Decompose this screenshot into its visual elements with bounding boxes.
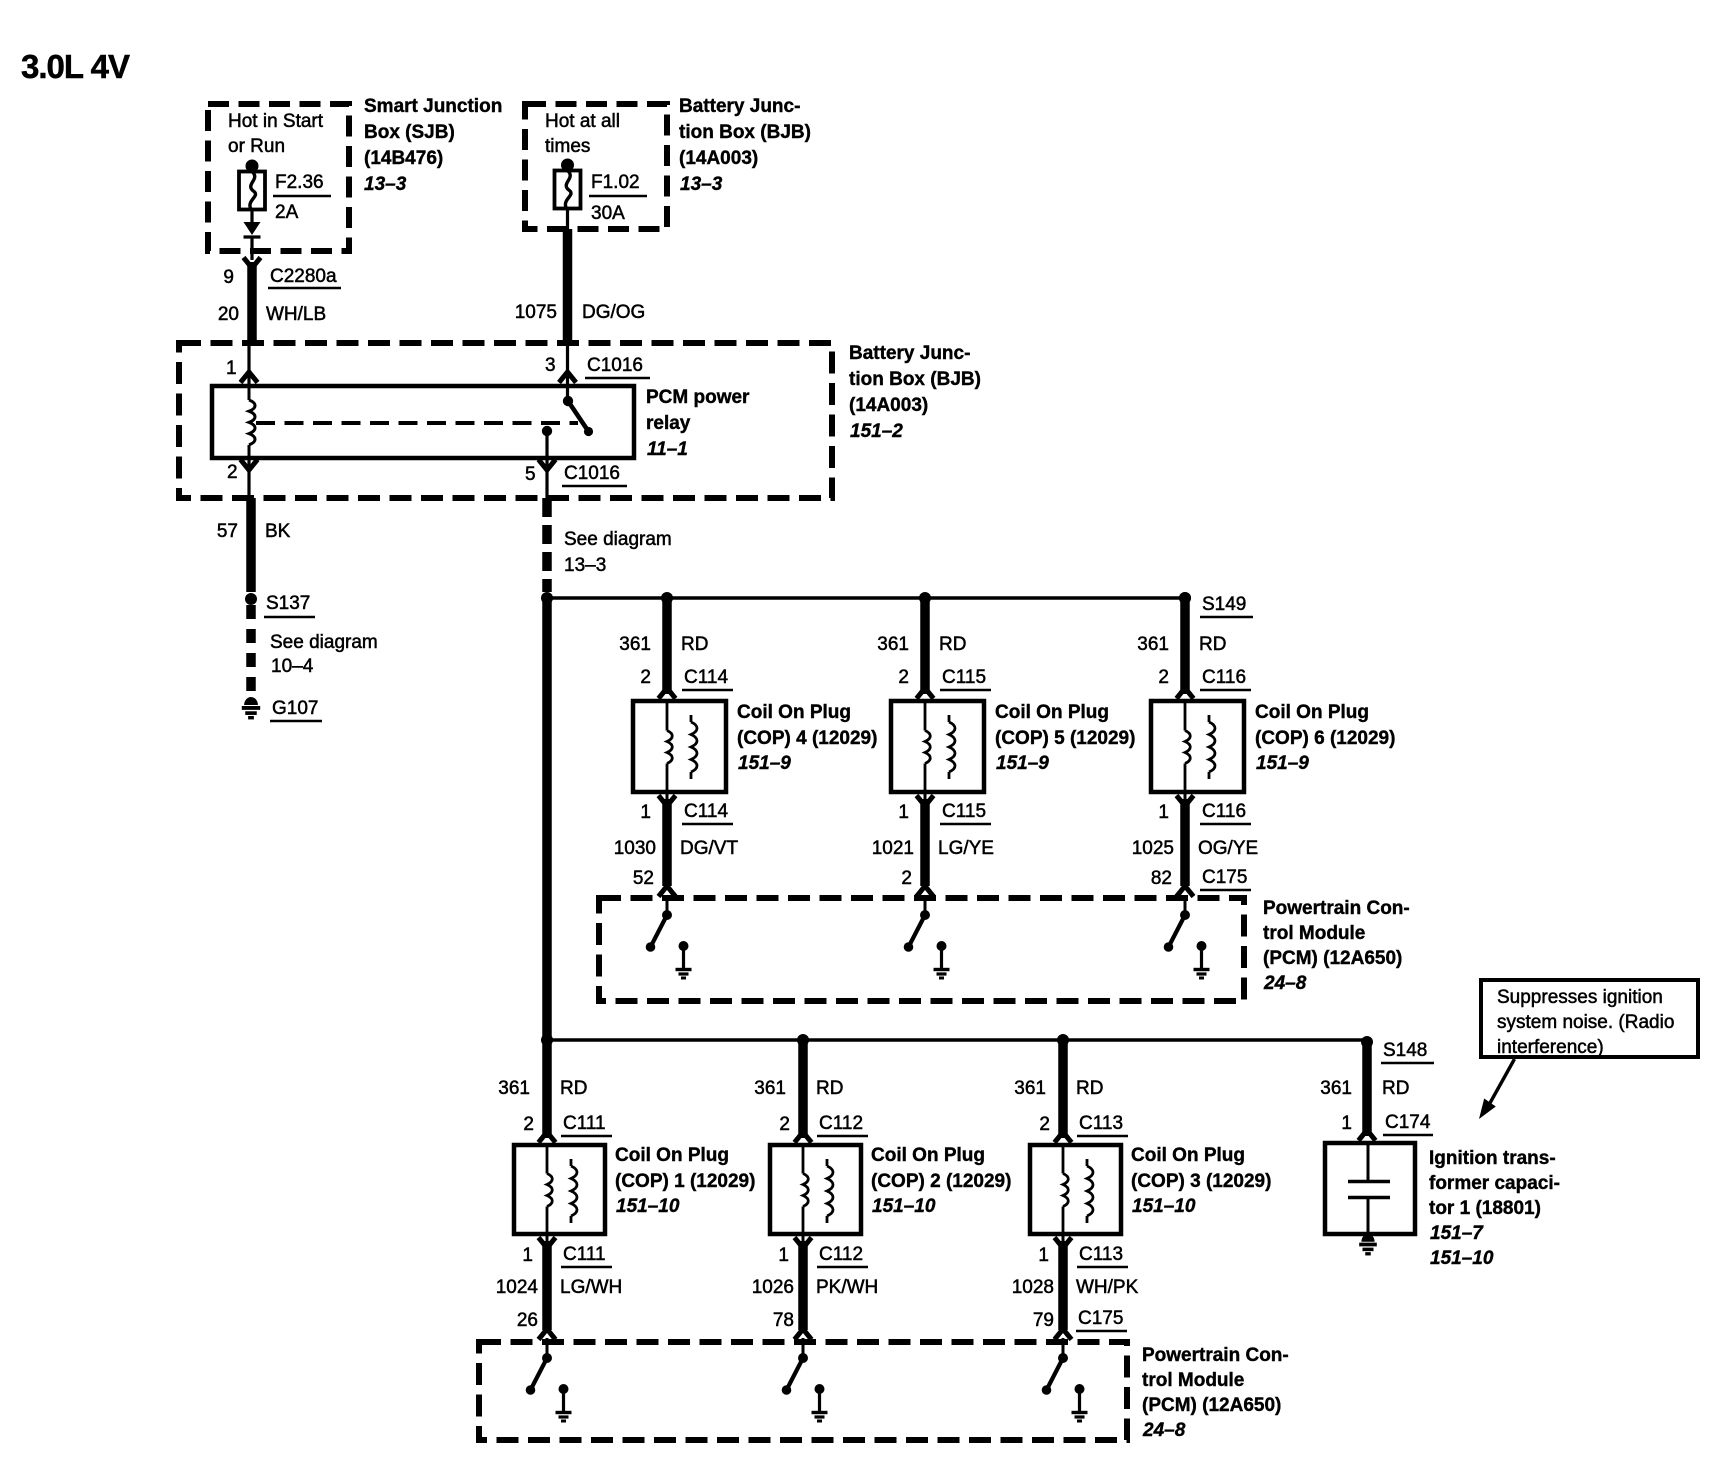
svg-text:C2280a: C2280a	[270, 266, 337, 287]
svg-text:(14A003): (14A003)	[849, 395, 928, 416]
wire fuse to diode	[250, 210, 253, 223]
svg-text:times: times	[545, 136, 590, 157]
wire 1026 PK/WH (thick)	[802, 1234, 805, 1242]
svg-text:F2.36: F2.36	[275, 172, 324, 193]
svg-text:WH/PK: WH/PK	[1076, 1277, 1139, 1298]
svg-text:Hot at all: Hot at all	[545, 111, 620, 132]
svg-text:1: 1	[1158, 802, 1169, 823]
svg-text:361: 361	[1320, 1078, 1352, 1099]
wire S137 to G107 (dashed thick)	[246, 605, 256, 698]
relay coil	[248, 386, 251, 400]
relay switch	[563, 396, 573, 406]
svg-text:151–9: 151–9	[738, 753, 791, 774]
PCM internal ground (COP6)	[1197, 941, 1207, 951]
pin 1 arrow COP4	[659, 796, 676, 807]
svg-text:Battery Junc-: Battery Junc-	[849, 343, 970, 364]
svg-text:(COP) 5 (12029): (COP) 5 (12029)	[995, 728, 1135, 749]
svg-text:1: 1	[778, 1245, 789, 1266]
svg-text:RD: RD	[939, 634, 966, 655]
svg-text:1075: 1075	[515, 302, 557, 323]
svg-text:C112: C112	[819, 1244, 863, 1265]
wire See diagram 13-3 (dashed thick)	[542, 498, 552, 592]
wire 1028 WH/PK (thick)	[1062, 1234, 1065, 1242]
svg-text:30A: 30A	[591, 203, 625, 224]
svg-text:2: 2	[901, 868, 912, 889]
ground below capacitor	[1361, 1234, 1374, 1242]
svg-text:52: 52	[633, 868, 654, 889]
svg-text:DG/OG: DG/OG	[582, 302, 645, 323]
svg-text:Coil On Plug: Coil On Plug	[871, 1145, 985, 1166]
svg-text:1: 1	[226, 358, 237, 379]
pin 1 arrow COP2	[795, 1238, 812, 1249]
splice at bus1	[541, 592, 553, 604]
svg-text:C112: C112	[819, 1113, 863, 1134]
wire diode to SJB edge	[250, 238, 253, 260]
svg-text:1: 1	[1038, 1245, 1049, 1266]
pin 2 arrow COP1	[539, 1132, 556, 1143]
wire 361 RD to COP1 (thick)	[542, 1040, 552, 1138]
PCM internal ground (COP3)	[1075, 1384, 1085, 1394]
svg-text:(COP) 6 (12029): (COP) 6 (12029)	[1255, 728, 1395, 749]
svg-text:11–1: 11–1	[647, 439, 688, 460]
svg-text:Coil On Plug: Coil On Plug	[1131, 1145, 1245, 1166]
pin 2 arrow COP3	[1055, 1132, 1072, 1143]
svg-text:10–4: 10–4	[271, 656, 314, 677]
svg-text:361: 361	[1137, 634, 1169, 655]
junction dot COP2 branch	[797, 1034, 809, 1046]
svg-text:C175: C175	[1078, 1308, 1123, 1329]
splice at bus2	[541, 1034, 553, 1046]
coil COP1 windings	[546, 1145, 549, 1174]
note arrow	[1490, 1059, 1515, 1103]
wire 57 BK (thick)	[246, 498, 256, 592]
pin 1 arrow	[241, 372, 258, 383]
coil COP2 windings	[802, 1145, 805, 1174]
svg-text:G107: G107	[272, 698, 318, 719]
svg-text:tor 1 (18801): tor 1 (18801)	[1429, 1198, 1541, 1219]
wire pin1 entry	[247, 346, 250, 386]
svg-text:tion Box (BJB): tion Box (BJB)	[849, 369, 981, 390]
wire pin5 exit	[545, 431, 548, 498]
fuse F2.36	[246, 160, 259, 173]
ground G107	[244, 697, 258, 705]
junction box BJB (dashed)	[525, 104, 667, 229]
svg-text:RD: RD	[681, 634, 708, 655]
svg-text:1026: 1026	[752, 1277, 794, 1298]
PCM entry arrow COP3	[1055, 1329, 1072, 1340]
svg-text:2: 2	[640, 667, 651, 688]
svg-text:(PCM) (12A650): (PCM) (12A650)	[1142, 1395, 1281, 1416]
svg-text:Coil On Plug: Coil On Plug	[995, 702, 1109, 723]
wire into PCM (COP2)	[802, 1338, 805, 1358]
junction dot COP5 branch	[919, 592, 931, 604]
wire 361 RD to COP6 (thick)	[1180, 598, 1190, 694]
svg-text:1: 1	[640, 802, 651, 823]
svg-text:WH/LB: WH/LB	[266, 304, 326, 325]
wire 361 RD to COP2 (thick)	[798, 1040, 808, 1138]
svg-text:151–10: 151–10	[1430, 1248, 1494, 1269]
svg-text:or Run: or Run	[228, 136, 285, 157]
svg-text:13–3: 13–3	[564, 555, 606, 576]
svg-text:82: 82	[1151, 868, 1172, 889]
splice S137	[245, 593, 257, 605]
svg-text:Coil On Plug: Coil On Plug	[1255, 702, 1369, 723]
relay K (PCM power relay) outline	[212, 386, 634, 458]
svg-text:361: 361	[619, 634, 651, 655]
module PCM upper (dashed)	[599, 898, 1244, 1001]
svg-text:151–10: 151–10	[1132, 1196, 1196, 1217]
wire into PCM (COP4)	[666, 895, 669, 915]
pin 1 arrow COP3	[1055, 1238, 1072, 1249]
bus wire to S149	[547, 596, 1185, 599]
PCM internal ground (COP2)	[815, 1384, 825, 1394]
pin 5 arrow	[539, 460, 556, 471]
pin 1 arrow COP5	[917, 796, 934, 807]
svg-text:1: 1	[898, 802, 909, 823]
svg-text:C1016: C1016	[587, 355, 643, 376]
wire 361 RD to COP3 (thick)	[1058, 1040, 1068, 1138]
svg-text:interference): interference)	[1497, 1037, 1604, 1058]
svg-text:C116: C116	[1202, 667, 1246, 688]
svg-text:(COP) 1 (12029): (COP) 1 (12029)	[615, 1171, 755, 1192]
coil-on-plug COP3 box	[1030, 1145, 1121, 1234]
svg-text:2: 2	[779, 1114, 790, 1135]
svg-text:1025: 1025	[1132, 838, 1174, 859]
svg-text:Ignition trans-: Ignition trans-	[1429, 1148, 1556, 1169]
PCM entry arrow COP4	[659, 886, 676, 897]
svg-text:79: 79	[1033, 1310, 1054, 1331]
coil COP3 windings	[1062, 1145, 1065, 1174]
svg-text:151–2: 151–2	[850, 421, 903, 442]
pin 1 arrow capacitor	[1359, 1130, 1376, 1141]
svg-text:13–3: 13–3	[680, 174, 723, 195]
wire 20 WH/LB (thick)	[247, 262, 257, 344]
svg-text:Smart Junction: Smart Junction	[364, 96, 502, 117]
wire main feed (thick vertical)	[542, 598, 552, 1040]
svg-text:151–10: 151–10	[872, 1196, 936, 1217]
svg-text:C113: C113	[1079, 1113, 1123, 1134]
svg-text:1021: 1021	[872, 838, 914, 859]
svg-text:(PCM) (12A650): (PCM) (12A650)	[1263, 948, 1402, 969]
svg-text:361: 361	[498, 1078, 530, 1099]
svg-text:(COP) 3 (12029): (COP) 3 (12029)	[1131, 1171, 1271, 1192]
PCM internal ground (COP5)	[937, 941, 947, 951]
svg-text:trol Module: trol Module	[1142, 1370, 1244, 1391]
svg-text:78: 78	[773, 1310, 794, 1331]
svg-text:(COP) 2 (12029): (COP) 2 (12029)	[871, 1171, 1011, 1192]
svg-text:1024: 1024	[496, 1277, 539, 1298]
wire pin2 exit	[247, 458, 250, 498]
relay pin5 contact dot	[542, 426, 552, 436]
svg-text:361: 361	[877, 634, 909, 655]
svg-text:Powertrain Con-: Powertrain Con-	[1142, 1345, 1289, 1366]
svg-text:RD: RD	[1382, 1078, 1409, 1099]
svg-text:relay: relay	[646, 413, 691, 434]
PCM switch (COP6 driver)	[1180, 910, 1190, 920]
svg-text:361: 361	[754, 1078, 786, 1099]
svg-text:Hot in Start: Hot in Start	[228, 111, 324, 132]
wire 361 RD to COP4 (thick)	[662, 598, 672, 694]
svg-text:DG/VT: DG/VT	[680, 838, 738, 859]
svg-text:RD: RD	[560, 1078, 587, 1099]
svg-text:See diagram: See diagram	[270, 632, 378, 653]
pin 2 arrow	[241, 460, 258, 471]
relay control dashed line	[256, 421, 578, 425]
svg-text:9: 9	[223, 267, 234, 288]
junction dot COP6 branch	[1179, 592, 1191, 604]
svg-text:(14B476): (14B476)	[364, 148, 443, 169]
capacitor C1 symbol	[1367, 1143, 1370, 1180]
svg-text:151–9: 151–9	[1256, 753, 1309, 774]
splice S148	[1361, 1036, 1373, 1048]
wire 1024 LG/WH (thick)	[546, 1234, 549, 1242]
junction box SJB (dashed)	[208, 104, 349, 251]
PCM internal ground (COP1)	[559, 1384, 569, 1394]
pin 2 arrow COP5	[917, 688, 934, 699]
svg-text:Coil On Plug: Coil On Plug	[615, 1145, 729, 1166]
svg-text:RD: RD	[1199, 634, 1226, 655]
svg-text:LG/WH: LG/WH	[560, 1277, 622, 1298]
wire 1021 LG/YE (thick)	[924, 792, 927, 800]
module PCM lower (dashed)	[479, 1342, 1127, 1440]
svg-text:BK: BK	[265, 521, 291, 542]
svg-text:1: 1	[1341, 1113, 1352, 1134]
svg-text:3.0L 4V: 3.0L 4V	[21, 48, 130, 85]
svg-text:S149: S149	[1202, 594, 1246, 615]
svg-text:2: 2	[523, 1114, 534, 1135]
PCM switch (COP1 driver)	[542, 1353, 552, 1363]
pin 2 arrow COP2	[795, 1132, 812, 1143]
coil COP6 windings	[1184, 701, 1187, 731]
svg-text:Box (SJB): Box (SJB)	[364, 122, 455, 143]
coil-on-plug COP6 box	[1151, 701, 1244, 792]
svg-text:C111: C111	[563, 1244, 606, 1265]
wire fuse to BJB edge	[566, 209, 569, 230]
svg-text:3: 3	[545, 355, 556, 376]
PCM entry arrow COP2	[795, 1329, 812, 1340]
PCM internal ground (COP4)	[679, 941, 689, 951]
coil COP5 windings	[924, 701, 927, 731]
svg-text:20: 20	[218, 304, 239, 325]
PCM entry arrow COP1	[539, 1329, 556, 1340]
note box (suppresses ignition noise)	[1481, 980, 1698, 1057]
svg-text:tion Box (BJB): tion Box (BJB)	[679, 122, 811, 143]
svg-text:151–9: 151–9	[996, 753, 1049, 774]
coil-on-plug COP2 box	[770, 1145, 861, 1234]
wire 361 RD to COP5 (thick)	[920, 598, 930, 694]
svg-text:RD: RD	[816, 1078, 843, 1099]
svg-text:C115: C115	[942, 801, 986, 822]
wire 1030 DG/VT (thick)	[666, 792, 669, 800]
svg-text:2: 2	[1158, 667, 1169, 688]
bus wire to S148	[547, 1038, 1367, 1041]
svg-text:Suppresses ignition: Suppresses ignition	[1497, 987, 1663, 1008]
fuse F1.02	[561, 159, 574, 172]
svg-text:Coil On Plug: Coil On Plug	[737, 702, 851, 723]
svg-text:(14A003): (14A003)	[679, 148, 758, 169]
coil-on-plug COP5 box	[891, 701, 984, 792]
svg-text:151–7: 151–7	[1430, 1223, 1484, 1244]
svg-text:57: 57	[217, 521, 238, 542]
svg-text:(COP) 4 (12029): (COP) 4 (12029)	[737, 728, 877, 749]
wire into PCM (COP3)	[1062, 1338, 1065, 1358]
wire into PCM (COP5)	[924, 895, 927, 915]
wire into PCM (COP1)	[546, 1338, 549, 1358]
pin 2 arrow COP6	[1177, 688, 1194, 699]
svg-text:Battery Junc-: Battery Junc-	[679, 96, 800, 117]
svg-text:2: 2	[227, 462, 238, 483]
svg-text:26: 26	[517, 1310, 538, 1331]
svg-text:1030: 1030	[614, 838, 656, 859]
svg-text:2: 2	[898, 667, 909, 688]
svg-text:LG/YE: LG/YE	[938, 838, 994, 859]
connector C2280a arrow	[244, 258, 261, 269]
svg-text:trol Module: trol Module	[1263, 923, 1365, 944]
svg-text:former capaci-: former capaci-	[1429, 1173, 1560, 1194]
svg-text:5: 5	[525, 464, 536, 485]
PCM entry arrow COP6	[1177, 886, 1194, 897]
svg-text:1028: 1028	[1012, 1277, 1054, 1298]
svg-text:24–8: 24–8	[1263, 973, 1307, 994]
svg-text:PCM power: PCM power	[646, 387, 750, 408]
wire pin3 entry	[566, 346, 569, 401]
svg-text:C113: C113	[1079, 1244, 1123, 1265]
svg-text:Powertrain Con-: Powertrain Con-	[1263, 898, 1410, 919]
wire 1025 OG/YE (thick)	[1184, 792, 1187, 800]
svg-text:C174: C174	[1385, 1112, 1431, 1133]
svg-text:S137: S137	[266, 593, 310, 614]
svg-text:C115: C115	[942, 667, 986, 688]
svg-text:2A: 2A	[275, 202, 299, 223]
svg-text:RD: RD	[1076, 1078, 1103, 1099]
junction box BJB lower (dashed)	[179, 343, 832, 498]
svg-text:C114: C114	[684, 667, 728, 688]
PCM switch (COP4 driver)	[662, 910, 672, 920]
svg-text:13–3: 13–3	[364, 174, 407, 195]
PCM switch (COP2 driver)	[798, 1353, 808, 1363]
svg-text:system noise. (Radio: system noise. (Radio	[1497, 1012, 1674, 1033]
coil-on-plug COP4 box	[633, 701, 726, 792]
PCM switch (COP5 driver)	[920, 910, 930, 920]
pin 1 arrow COP1	[539, 1238, 556, 1249]
pin 1 arrow COP6	[1177, 796, 1194, 807]
svg-text:24–8: 24–8	[1142, 1420, 1186, 1441]
diode (in SJB)	[244, 222, 261, 235]
pin 3 arrow	[559, 372, 576, 383]
coil-on-plug COP1 box	[514, 1145, 605, 1234]
wire into PCM (COP6)	[1184, 895, 1187, 915]
svg-text:151–10: 151–10	[616, 1196, 680, 1217]
PCM entry arrow COP5	[917, 886, 934, 897]
svg-text:C114: C114	[684, 801, 728, 822]
svg-text:See diagram: See diagram	[564, 529, 672, 550]
junction dot COP3 branch	[1057, 1034, 1069, 1046]
svg-text:F1.02: F1.02	[591, 172, 640, 193]
svg-text:C116: C116	[1202, 801, 1246, 822]
PCM switch (COP3 driver)	[1058, 1353, 1068, 1363]
svg-text:361: 361	[1014, 1078, 1046, 1099]
svg-text:1: 1	[522, 1245, 533, 1266]
wire 361 RD to capacitor (thick)	[1362, 1042, 1372, 1136]
junction dot COP4 branch	[661, 592, 673, 604]
svg-text:C111: C111	[563, 1113, 606, 1134]
pin 2 arrow COP4	[659, 688, 676, 699]
svg-text:OG/YE: OG/YE	[1198, 838, 1258, 859]
capacitor C1 box	[1325, 1143, 1415, 1234]
wire 1075 DG/OG (thick)	[563, 229, 573, 344]
svg-text:2: 2	[1039, 1114, 1050, 1135]
splice S149	[1179, 592, 1191, 604]
svg-text:S148: S148	[1383, 1040, 1427, 1061]
svg-text:PK/WH: PK/WH	[816, 1277, 878, 1298]
svg-text:C175: C175	[1202, 867, 1247, 888]
svg-text:C1016: C1016	[564, 463, 620, 484]
coil COP4 windings	[666, 701, 669, 731]
